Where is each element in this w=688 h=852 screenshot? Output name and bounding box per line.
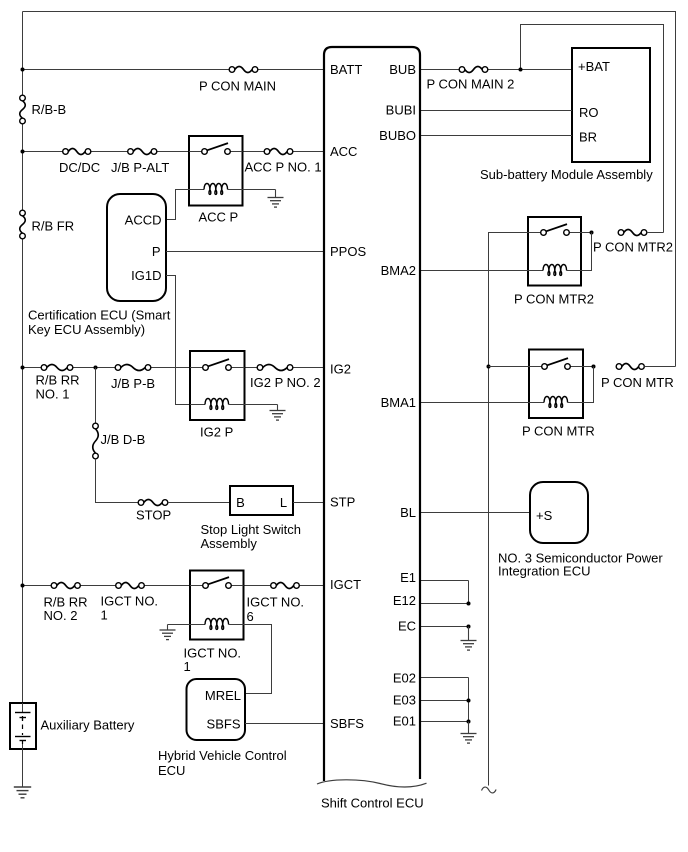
svg-text:IGCT NO.: IGCT NO. bbox=[184, 646, 242, 661]
svg-text:1: 1 bbox=[101, 608, 108, 623]
svg-text:+S: +S bbox=[536, 508, 553, 523]
svg-text:P: P bbox=[152, 244, 161, 259]
svg-text:BUBO: BUBO bbox=[379, 128, 416, 143]
svg-text:R/B FR: R/B FR bbox=[32, 219, 75, 234]
svg-text:P CON MTR2: P CON MTR2 bbox=[514, 292, 594, 307]
svg-text:Integration ECU: Integration ECU bbox=[498, 564, 591, 579]
svg-text:E1: E1 bbox=[400, 570, 416, 585]
svg-text:IGCT: IGCT bbox=[330, 577, 361, 592]
svg-text:IG1D: IG1D bbox=[131, 268, 161, 283]
svg-text:R/B-B: R/B-B bbox=[32, 102, 67, 117]
svg-text:BUBI: BUBI bbox=[386, 103, 416, 118]
svg-text:L: L bbox=[280, 495, 287, 510]
svg-text:IG2: IG2 bbox=[330, 362, 351, 377]
svg-text:ECU: ECU bbox=[158, 763, 185, 778]
svg-text:BMA2: BMA2 bbox=[381, 263, 416, 278]
svg-text:J/B P-B: J/B P-B bbox=[111, 376, 155, 391]
svg-text:+BAT: +BAT bbox=[578, 59, 610, 74]
svg-text:RO: RO bbox=[579, 105, 599, 120]
svg-text:BMA1: BMA1 bbox=[381, 395, 416, 410]
svg-text:NO. 1: NO. 1 bbox=[36, 387, 70, 402]
svg-text:E03: E03 bbox=[393, 693, 416, 708]
svg-text:P CON MAIN: P CON MAIN bbox=[199, 79, 276, 94]
svg-text:Auxiliary Battery: Auxiliary Battery bbox=[41, 718, 135, 733]
svg-text:STP: STP bbox=[330, 495, 355, 510]
svg-text:IGCT NO.: IGCT NO. bbox=[101, 594, 159, 609]
svg-text:P CON MTR: P CON MTR bbox=[601, 375, 674, 390]
svg-text:ACC: ACC bbox=[330, 144, 357, 159]
svg-text:J/B P-ALT: J/B P-ALT bbox=[111, 160, 169, 175]
svg-text:E01: E01 bbox=[393, 714, 416, 729]
svg-text:EC: EC bbox=[398, 619, 416, 634]
svg-text:ACC P: ACC P bbox=[199, 210, 239, 225]
svg-text:IG2 P NO. 2: IG2 P NO. 2 bbox=[250, 375, 321, 390]
svg-text:Hybrid Vehicle Control: Hybrid Vehicle Control bbox=[158, 748, 287, 763]
svg-text:Stop Light Switch: Stop Light Switch bbox=[201, 522, 301, 537]
svg-text:B: B bbox=[236, 495, 245, 510]
svg-text:Certification ECU (Smart: Certification ECU (Smart bbox=[28, 307, 171, 322]
svg-text:R/B RR: R/B RR bbox=[36, 373, 80, 388]
svg-text:Shift Control ECU: Shift Control ECU bbox=[321, 796, 424, 811]
svg-text:SBFS: SBFS bbox=[330, 716, 364, 731]
svg-text:BR: BR bbox=[579, 130, 597, 145]
svg-text:Key ECU Assembly): Key ECU Assembly) bbox=[28, 322, 145, 337]
svg-text:E12: E12 bbox=[393, 593, 416, 608]
svg-text:Sub-battery Module Assembly: Sub-battery Module Assembly bbox=[480, 167, 653, 182]
svg-text:BATT: BATT bbox=[330, 62, 362, 77]
svg-text:Assembly: Assembly bbox=[201, 536, 258, 551]
svg-text:BUB: BUB bbox=[389, 62, 416, 77]
svg-text:J/B D-B: J/B D-B bbox=[101, 432, 146, 447]
svg-text:E02: E02 bbox=[393, 671, 416, 686]
svg-text:MREL: MREL bbox=[205, 688, 241, 703]
svg-text:IG2 P: IG2 P bbox=[200, 425, 233, 440]
svg-text:DC/DC: DC/DC bbox=[59, 160, 100, 175]
svg-text:BL: BL bbox=[400, 505, 416, 520]
svg-text:P CON MAIN 2: P CON MAIN 2 bbox=[427, 77, 515, 92]
svg-text:ACCD: ACCD bbox=[125, 213, 162, 228]
svg-text:ACC P NO. 1: ACC P NO. 1 bbox=[245, 160, 322, 175]
svg-text:P CON MTR2: P CON MTR2 bbox=[593, 240, 673, 255]
svg-text:STOP: STOP bbox=[136, 508, 171, 523]
svg-text:IGCT NO.: IGCT NO. bbox=[247, 595, 305, 610]
svg-text:6: 6 bbox=[247, 609, 254, 624]
svg-text:1: 1 bbox=[184, 659, 191, 674]
svg-text:P CON MTR: P CON MTR bbox=[522, 424, 595, 439]
svg-text:NO. 2: NO. 2 bbox=[44, 608, 78, 623]
svg-text:PPOS: PPOS bbox=[330, 244, 366, 259]
svg-text:SBFS: SBFS bbox=[207, 717, 241, 732]
